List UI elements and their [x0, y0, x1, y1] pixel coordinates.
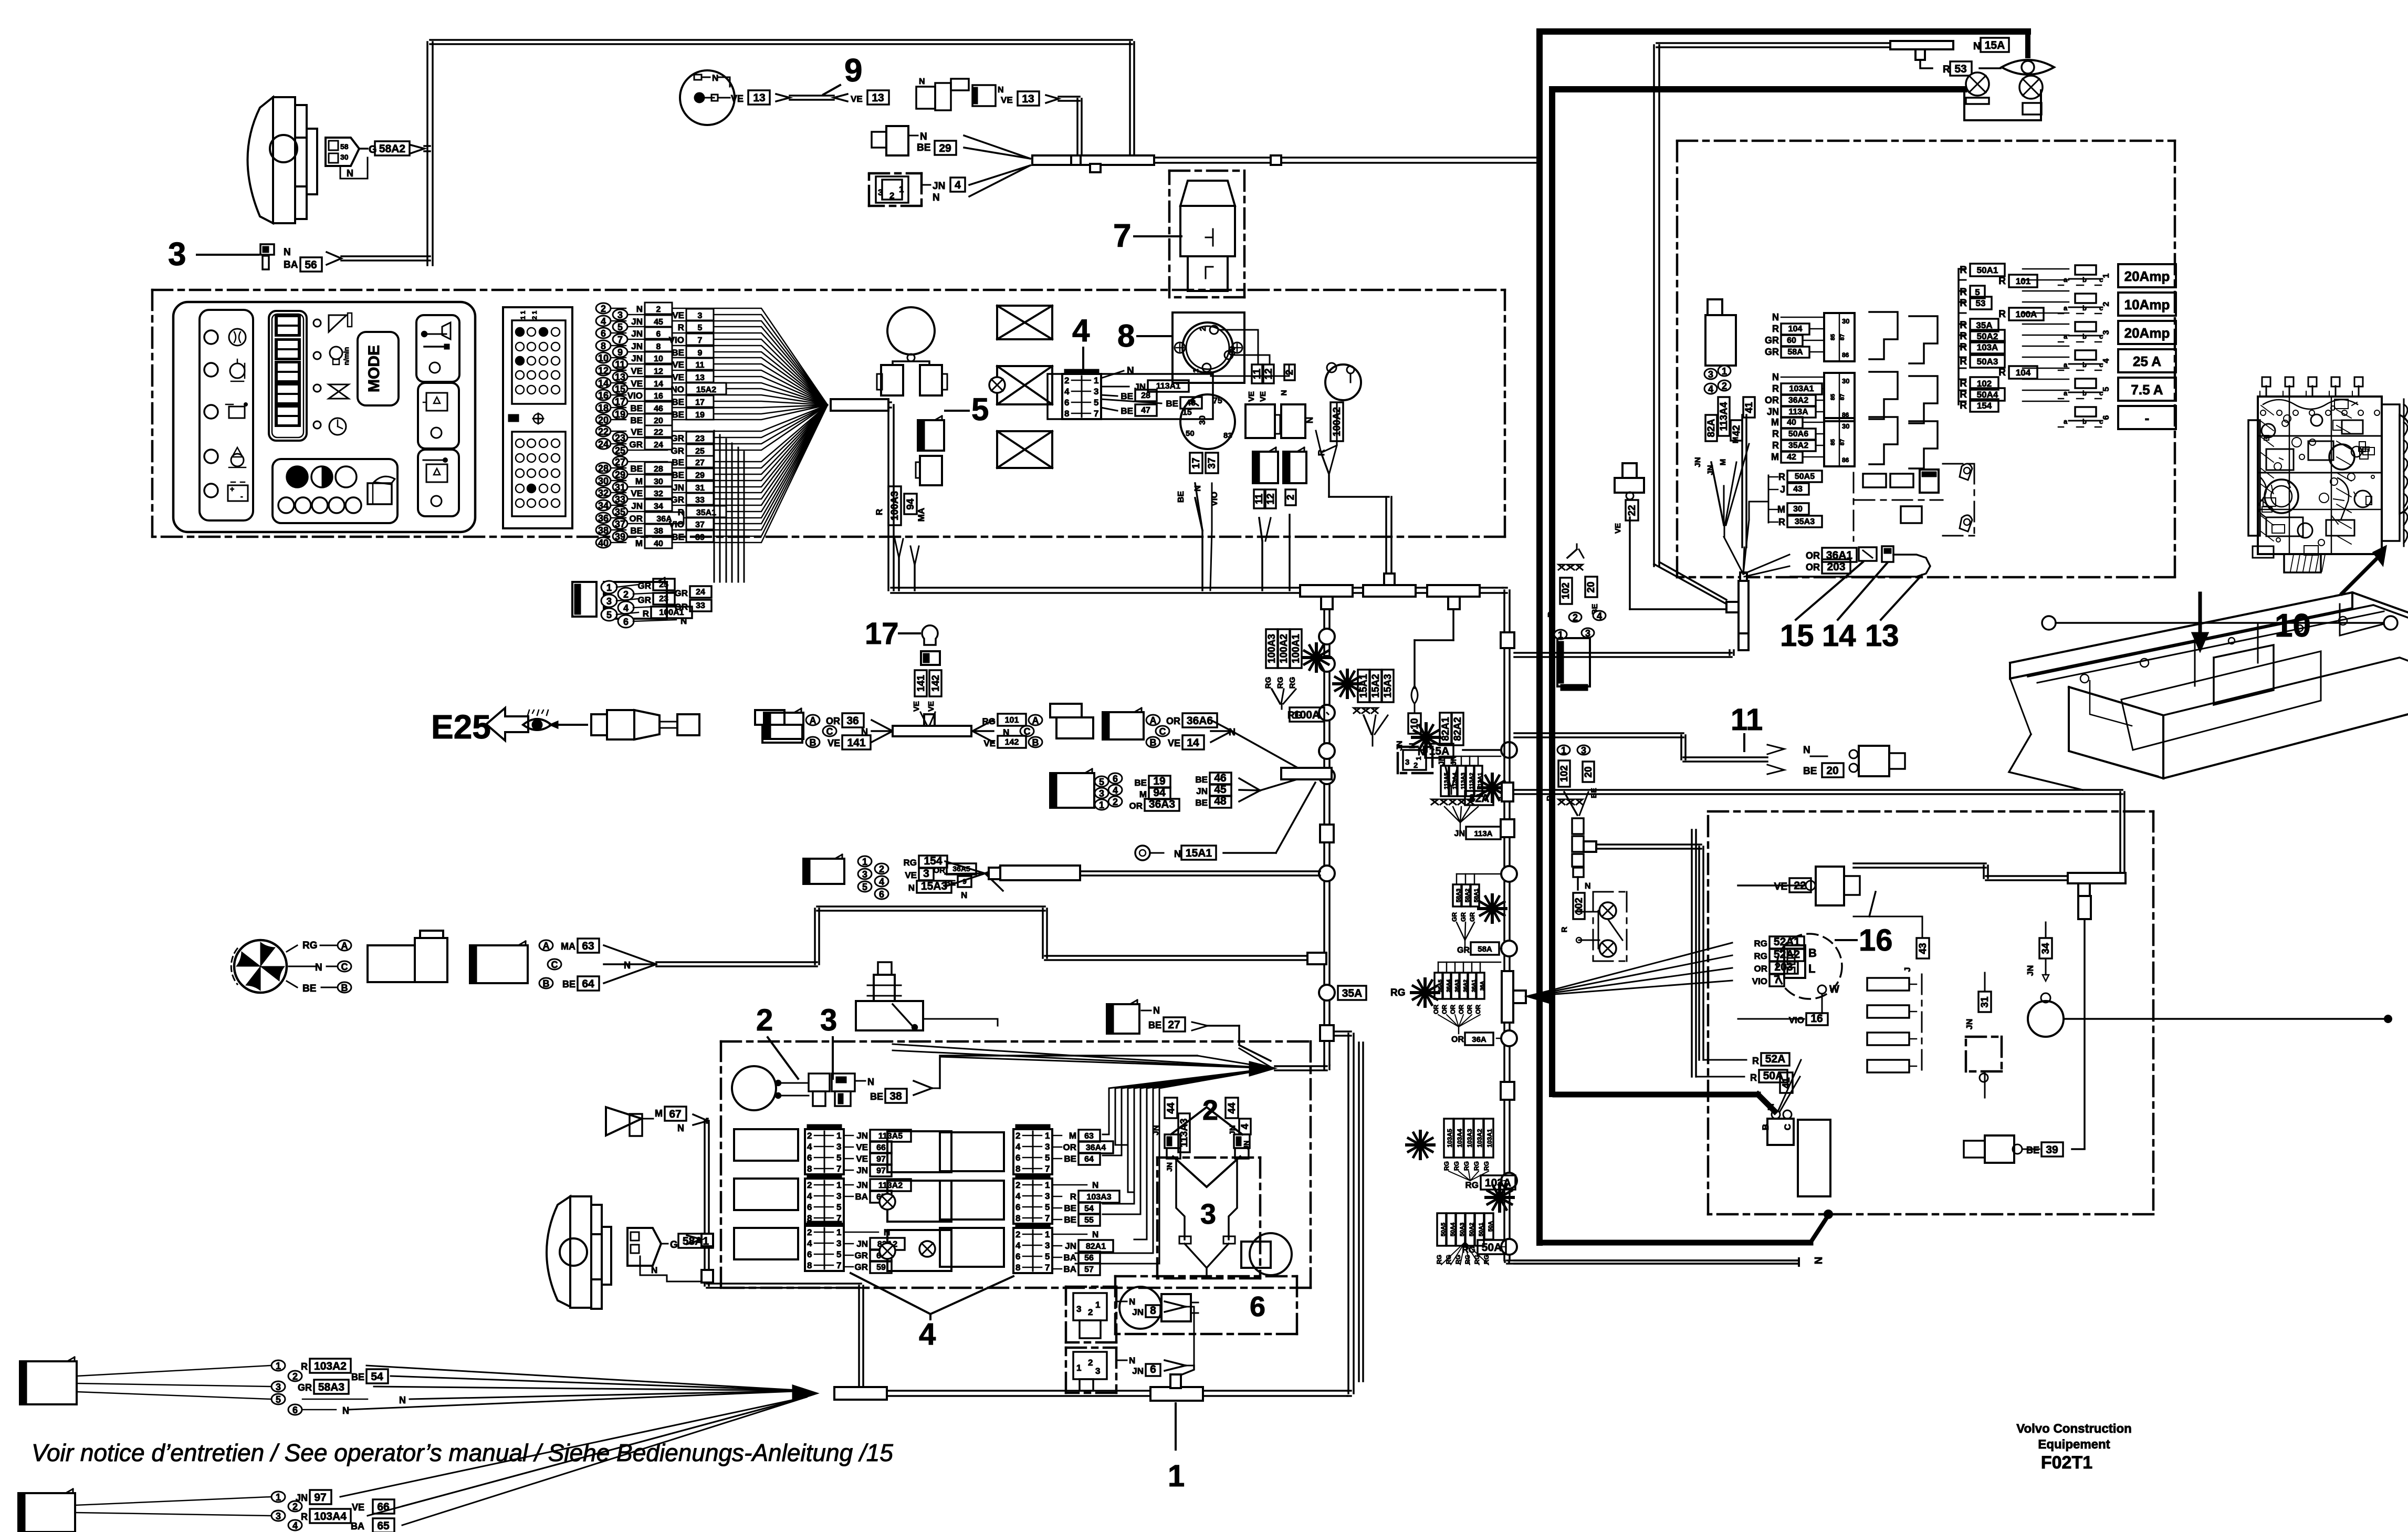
- switch 11: [1859, 746, 1889, 776]
- svg-text:30: 30: [1198, 415, 1207, 425]
- fuse feed lines: [2023, 268, 2069, 270]
- svg-text:GR: GR: [1451, 912, 1458, 922]
- svg-text:N: N: [1305, 417, 1315, 423]
- svg-text:VE: VE: [851, 94, 863, 104]
- muffler 7 (glow plug): [1180, 181, 1235, 206]
- svg-text:50A5: 50A5: [1795, 472, 1815, 481]
- svg-text:BE: BE: [302, 983, 316, 994]
- svg-text:100A: 100A: [2016, 309, 2037, 319]
- headlamp E2: [547, 1196, 570, 1307]
- label 31 JN: [1978, 992, 1991, 1012]
- icon clock: [329, 418, 346, 435]
- T junction top right: [1890, 41, 1953, 49]
- svg-text:7: 7: [1094, 409, 1098, 419]
- pin 3 (rg154): [858, 869, 872, 879]
- label OR 36A (bus): [1458, 1027, 1460, 1034]
- fuse 2: [2075, 294, 2096, 303]
- gauge wires: [781, 1082, 809, 1084]
- pin C (fan): [338, 961, 351, 972]
- svg-text:40: 40: [1787, 418, 1796, 427]
- label GR 23 (lower): [616, 599, 638, 601]
- svg-text:BE: BE: [672, 457, 684, 467]
- svg-text:141: 141: [847, 737, 865, 749]
- svg-text:1: 1: [1558, 630, 1563, 640]
- svg-text:4: 4: [1113, 785, 1118, 796]
- wire relay chain: [1984, 1071, 1986, 1098]
- svg-text:BE: BE: [1064, 1215, 1076, 1225]
- svg-text:N: N: [1129, 1356, 1135, 1366]
- junction bar (ignition feed): [1032, 155, 1154, 165]
- svg-text:BA: BA: [284, 259, 298, 270]
- relay small 1 body: [1245, 404, 1275, 438]
- svg-text:Voir notice d’entretien / See: Voir notice d’entretien / See operator’s…: [32, 1439, 893, 1466]
- svg-text:38: 38: [889, 1090, 902, 1102]
- bottom connector C1: [20, 1361, 77, 1404]
- svg-text:103A2: 103A2: [314, 1360, 347, 1372]
- svg-text:7: 7: [1045, 1263, 1050, 1273]
- svg-text:34: 34: [598, 501, 609, 511]
- fan 17 to T: [920, 712, 927, 726]
- dashed box 3: [1157, 1156, 1260, 1159]
- svg-text:OR: OR: [1806, 550, 1820, 561]
- svg-text:37: 37: [695, 520, 705, 529]
- label JN 113A: [1460, 822, 1461, 832]
- svg-text:VE: VE: [828, 738, 840, 748]
- svg-text:50: 50: [1186, 429, 1195, 438]
- leader 4: [1082, 348, 1084, 374]
- fan connector 1: [368, 945, 415, 982]
- label N (block4): [1101, 371, 1124, 378]
- dash-dot box 7 (muffler): [1169, 170, 1244, 172]
- pin5 C1: [271, 1394, 285, 1404]
- connector grid lower: [512, 432, 566, 516]
- resistor 4: [1867, 1060, 1909, 1072]
- connector 321 lower b: [1066, 1347, 1116, 1349]
- svg-text:58A2: 58A2: [1464, 889, 1471, 902]
- svg-text:JN: JN: [1132, 1366, 1144, 1376]
- label BE 46: [1101, 399, 1161, 403]
- svg-text:15A3: 15A3: [1383, 674, 1394, 697]
- xbox 2: [997, 366, 1052, 404]
- pin 5 (rg154): [858, 881, 872, 892]
- starter relay circle: [2028, 1001, 2064, 1037]
- svg-text:1: 1: [836, 1227, 841, 1237]
- svg-text:2: 2: [1015, 1229, 1020, 1239]
- svg-text:23: 23: [659, 595, 668, 603]
- bus V2 block: [1501, 632, 1514, 648]
- wire to R53: [1920, 60, 1932, 68]
- svg-text:54: 54: [371, 1371, 383, 1383]
- svg-text:4: 4: [1015, 1191, 1021, 1201]
- plug 3 (small): [832, 1074, 855, 1091]
- svg-text:56: 56: [305, 259, 317, 271]
- pin B2: [1029, 737, 1042, 747]
- pin 4 (lower conn): [618, 601, 634, 614]
- merge 38: [914, 1081, 932, 1088]
- svg-text:A: A: [543, 941, 550, 951]
- svg-text:14: 14: [1187, 737, 1199, 749]
- svg-text:15: 15: [615, 384, 625, 394]
- label R 100A1 (lower): [616, 612, 638, 614]
- fuse 6: [2075, 407, 2096, 416]
- svg-text:RG: RG: [904, 858, 917, 868]
- svg-text:-: -: [240, 492, 243, 501]
- svg-text:1: 1: [606, 582, 612, 593]
- svg-text:6: 6: [1150, 1363, 1156, 1375]
- panel button 2: [418, 383, 459, 449]
- svg-text:GR: GR: [630, 440, 643, 450]
- svg-text:50A6: 50A6: [1788, 430, 1808, 439]
- svg-text:OR: OR: [826, 716, 840, 726]
- svg-text:1: 1: [1191, 369, 1200, 373]
- label N 15A1: [1150, 852, 1164, 854]
- trunk T2 block: [1363, 585, 1416, 597]
- svg-text:3: 3: [698, 311, 703, 320]
- svg-text:BE: BE: [1166, 399, 1178, 409]
- battery relay pins: [1704, 369, 1717, 379]
- pin A2: [1029, 715, 1042, 725]
- svg-text:JN: JN: [1132, 1307, 1144, 1317]
- svg-text:b: b: [2082, 304, 2087, 312]
- svg-text:20Amp: 20Amp: [2124, 268, 2170, 284]
- svg-text:100A1: 100A1: [1291, 634, 1302, 663]
- svg-text:JN: JN: [1065, 1241, 1076, 1251]
- wire switch3 to bus: [341, 255, 430, 257]
- svg-text:47: 47: [1141, 406, 1150, 415]
- label 82A JN: [1465, 791, 1493, 805]
- svg-text:94: 94: [1153, 787, 1166, 799]
- fuse bus wire: [1957, 269, 1960, 404]
- svg-text:R: R: [1960, 331, 1967, 342]
- merge jn8: [1165, 1301, 1186, 1307]
- svg-text:4: 4: [1240, 1123, 1251, 1129]
- svg-text:RG: RG: [1754, 951, 1768, 961]
- thick to ground: [1543, 1240, 1810, 1246]
- amp rating 7.5 A: [2118, 378, 2176, 401]
- svg-text:VE: VE: [352, 1502, 364, 1513]
- svg-text:JN: JN: [631, 353, 643, 363]
- svg-text:15: 15: [1780, 619, 1814, 653]
- svg-text:F02T1: F02T1: [2041, 1453, 2092, 1473]
- svg-text:7: 7: [698, 336, 703, 345]
- svg-text:102: 102: [1559, 765, 1570, 782]
- bulb cluster mid: [1593, 892, 1594, 961]
- pin4 C2: [288, 1520, 302, 1530]
- headlamp E2 pigtail: [627, 1228, 661, 1266]
- svg-text:C: C: [826, 726, 833, 737]
- svg-text:53: 53: [1976, 298, 1986, 308]
- label N JN6: [1116, 1360, 1127, 1361]
- svg-text:JN: JN: [856, 1239, 868, 1249]
- svg-text:N: N: [867, 1077, 874, 1087]
- svg-text:25: 25: [615, 445, 625, 456]
- svg-text:102: 102: [1977, 379, 1992, 389]
- svg-text:5: 5: [1045, 1202, 1050, 1212]
- svg-text:5: 5: [1975, 287, 1980, 297]
- svg-text:2: 2: [1015, 1131, 1020, 1141]
- chain 5 drop to trunk: [898, 558, 900, 590]
- amp rating 20Amp: [2118, 321, 2176, 344]
- svg-text:N: N: [1174, 849, 1181, 859]
- pin2 C1: [288, 1371, 302, 1381]
- svg-text:53: 53: [1954, 63, 1966, 75]
- pin 4 (be19): [1108, 785, 1122, 795]
- asterisk 50A: [1486, 1196, 1513, 1199]
- svg-text:3: 3: [1076, 1304, 1081, 1314]
- svg-text:5: 5: [1099, 777, 1104, 787]
- svg-text:13: 13: [1022, 93, 1034, 105]
- svg-text:25 A: 25 A: [2133, 353, 2161, 369]
- svg-text:20Amp: 20Amp: [2124, 325, 2170, 341]
- svg-text:87: 87: [1839, 394, 1846, 400]
- merge arrow BE29: [964, 136, 1030, 159]
- merge 11: [1767, 745, 1784, 754]
- wire main loop top horizontal: [430, 39, 1132, 41]
- svg-text:JN: JN: [673, 483, 684, 493]
- pin C3: [1156, 726, 1169, 736]
- svg-text:GR: GR: [638, 595, 652, 605]
- box C relay L3: [805, 1226, 844, 1271]
- pin C2 (fan): [548, 959, 561, 970]
- svg-text:103A2: 103A2: [1476, 1129, 1483, 1148]
- svg-text:16: 16: [598, 390, 609, 401]
- svg-text:28: 28: [598, 463, 609, 474]
- svg-text:Equipement: Equipement: [2038, 1437, 2110, 1452]
- svg-text:5: 5: [836, 1202, 841, 1212]
- svg-text:B: B: [1032, 737, 1039, 748]
- svg-text:3: 3: [836, 1238, 841, 1248]
- svg-text:JN: JN: [1165, 1162, 1174, 1172]
- label 58A2: [375, 141, 410, 155]
- gauge circle (fuel): [732, 1066, 776, 1110]
- asterisk 15A: [1334, 682, 1361, 685]
- svg-text:33: 33: [696, 601, 705, 610]
- wire 27 right: [1208, 1025, 1239, 1027]
- svg-text:1: 1: [276, 1492, 281, 1503]
- svg-text:9: 9: [844, 53, 862, 89]
- svg-text:30: 30: [1842, 422, 1849, 430]
- chain 5 arrows: [895, 539, 903, 558]
- svg-text:40: 40: [598, 538, 609, 548]
- svg-text:4: 4: [807, 1191, 812, 1201]
- merge 58A1: [687, 1235, 702, 1244]
- svg-text:3: 3: [606, 596, 612, 607]
- pin 1 (be19): [1095, 799, 1108, 810]
- svg-text:JN: JN: [631, 341, 643, 351]
- label N C1b: [302, 1409, 336, 1411]
- svg-text:3: 3: [1585, 628, 1590, 639]
- stack 36A fan: [1438, 1015, 1459, 1027]
- svg-text:R: R: [1547, 611, 1556, 618]
- svg-text:36A3: 36A3: [1149, 798, 1175, 810]
- svg-text:BE: BE: [1195, 798, 1208, 808]
- svg-text:14: 14: [1822, 619, 1856, 653]
- svg-text:RG: RG: [1288, 677, 1297, 689]
- svg-text:3: 3: [1045, 1142, 1050, 1152]
- wire VE 13 (a): [718, 97, 730, 99]
- fan dashed arc: [231, 949, 237, 984]
- R102 stack mid zzz: [1558, 799, 1565, 805]
- svg-text:63: 63: [582, 940, 594, 952]
- connector grid upper: [512, 320, 566, 404]
- svg-text:32: 32: [598, 488, 609, 498]
- svg-text:2: 2: [807, 1180, 812, 1190]
- leader 8: [1137, 335, 1172, 337]
- svg-text:3: 3: [878, 187, 883, 197]
- pin C2: [1020, 726, 1034, 736]
- svg-text:A: A: [1032, 715, 1039, 726]
- svg-text:1: 1: [1076, 1363, 1081, 1373]
- svg-text:11: 11: [615, 359, 625, 370]
- bus V1 node b: [1319, 656, 1335, 672]
- svg-text:R: R: [1998, 309, 2006, 320]
- led small 2: [313, 352, 321, 359]
- svg-text:36: 36: [846, 715, 858, 727]
- svg-text:N: N: [1153, 1005, 1160, 1016]
- svg-text:b: b: [2082, 361, 2087, 369]
- svg-text:BE: BE: [870, 1091, 883, 1102]
- box C relay R2: [887, 1181, 951, 1222]
- label GR 33 (lower): [633, 606, 676, 608]
- svg-text:59: 59: [876, 1263, 886, 1272]
- svg-text:GR: GR: [638, 581, 652, 591]
- alternator excite circle: [1325, 364, 1361, 400]
- svg-text:3: 3: [1095, 1366, 1100, 1376]
- svg-text:N: N: [1092, 1180, 1098, 1190]
- chassis frame isometric: [2010, 592, 2408, 663]
- svg-text:64: 64: [582, 978, 594, 990]
- asterisk 58A: [1479, 907, 1506, 910]
- svg-text:13: 13: [695, 373, 705, 382]
- fan connector 2: [470, 945, 528, 983]
- svg-text:RG: RG: [1436, 1255, 1443, 1264]
- svg-text:GR: GR: [1765, 347, 1779, 357]
- svg-text:23: 23: [615, 433, 625, 443]
- bus V2 block a: [1501, 819, 1514, 837]
- svg-text:10: 10: [2275, 608, 2311, 644]
- svg-text:33: 33: [695, 496, 705, 505]
- T piece row: [893, 726, 971, 736]
- label JN 10: [1408, 713, 1421, 734]
- svg-text:OR: OR: [1765, 395, 1779, 405]
- pin A3: [1146, 715, 1160, 725]
- trunk corner to bus V2: [1503, 587, 1507, 589]
- svg-text:39: 39: [695, 533, 705, 542]
- svg-text:OR: OR: [934, 866, 946, 875]
- light sym full: [287, 466, 308, 487]
- svg-text:87: 87: [1839, 439, 1846, 445]
- svg-text:R: R: [1070, 1192, 1076, 1202]
- svg-text:42: 42: [1787, 453, 1796, 462]
- box C coil 2: [940, 1181, 1004, 1220]
- svg-text:63: 63: [1084, 1132, 1094, 1141]
- wire N15A1 to bus: [1223, 852, 1276, 854]
- lens symbol: [2002, 60, 2054, 75]
- stack 50A fan: [1441, 1242, 1465, 1265]
- svg-text:39: 39: [2046, 1144, 2058, 1156]
- amp rating 25 A: [2118, 349, 2176, 372]
- plug 2 (small): [809, 1074, 830, 1091]
- relay small lower 2: [1283, 452, 1306, 483]
- svg-text:58A: 58A: [1478, 945, 1492, 954]
- connector ticks: [1179, 1236, 1191, 1244]
- connector 321 inner: [876, 176, 908, 203]
- svg-text:28: 28: [1141, 391, 1150, 400]
- diode 14: [1882, 546, 1893, 562]
- svg-text:30: 30: [1842, 377, 1849, 385]
- svg-text:16: 16: [1859, 923, 1893, 957]
- svg-text:20: 20: [654, 416, 663, 425]
- merge arrow 56: [327, 252, 341, 265]
- svg-text:BE: BE: [1177, 491, 1186, 503]
- merge RG154: [945, 861, 985, 873]
- svg-text:113A4: 113A4: [1719, 402, 1730, 431]
- svg-text:VE: VE: [631, 366, 643, 376]
- bus V2 node 15A: [1501, 742, 1517, 758]
- svg-text:50A: 50A: [1482, 1242, 1502, 1254]
- svg-text:1: 1: [1045, 1180, 1050, 1190]
- svg-text:6: 6: [601, 328, 606, 339]
- svg-text:58A3: 58A3: [1456, 889, 1462, 902]
- svg-text:50A4: 50A4: [1977, 390, 1998, 400]
- stub on wire: [1271, 155, 1281, 165]
- label JN 44 R: [1226, 1098, 1238, 1118]
- svg-text:BA: BA: [855, 1192, 868, 1202]
- svg-text:203: 203: [1774, 961, 1793, 973]
- svg-text:6: 6: [2102, 415, 2111, 420]
- dash-dot box A (cab / instrument area): [152, 289, 1505, 291]
- svg-text:R: R: [1960, 298, 1967, 309]
- tube RG154: [989, 868, 1000, 879]
- svg-text:BA: BA: [351, 1521, 364, 1531]
- charge lamp 2: [2019, 76, 2043, 99]
- wires C2 pins: [75, 1497, 271, 1505]
- svg-text:1 1: 1 1: [519, 310, 527, 319]
- svg-text:6: 6: [623, 617, 629, 627]
- wires component 8 to relays: [1218, 330, 1258, 364]
- R102 wire through: [1514, 652, 1732, 654]
- svg-text:BE: BE: [672, 348, 684, 358]
- R102 stack mid labels: [1558, 760, 1570, 787]
- svg-text:R: R: [1943, 64, 1950, 75]
- svg-text:30: 30: [598, 476, 609, 486]
- wire sender right: [923, 1018, 998, 1020]
- svg-text:17: 17: [695, 398, 705, 407]
- label BE 28: [1101, 395, 1117, 396]
- pin 2 (be19): [1108, 796, 1122, 807]
- svg-text:1: 1: [1095, 1300, 1100, 1310]
- svg-text:B: B: [1761, 1124, 1771, 1130]
- engine handle dots: [2042, 616, 2056, 630]
- svg-text:N: N: [1772, 312, 1779, 322]
- svg-text:JN: JN: [631, 317, 643, 327]
- svg-text:VE: VE: [631, 488, 643, 498]
- svg-text:100A2: 100A2: [1279, 634, 1290, 663]
- merge BE19 fan: [1239, 778, 1260, 790]
- svg-text:M: M: [1771, 417, 1779, 428]
- wires jn to trunk: [1186, 1307, 1194, 1366]
- svg-text:85: 85: [1830, 334, 1836, 340]
- svg-text:C: C: [341, 962, 348, 972]
- wire key chain: [790, 95, 834, 97]
- svg-text:17: 17: [1191, 457, 1202, 468]
- connector (key chain 2): [972, 85, 996, 106]
- merge fan: [604, 945, 656, 964]
- bus T block (row): [1281, 768, 1332, 779]
- telltale icon battery: [228, 485, 248, 501]
- label M 67: [642, 1118, 653, 1120]
- svg-text:BE: BE: [1064, 1154, 1076, 1164]
